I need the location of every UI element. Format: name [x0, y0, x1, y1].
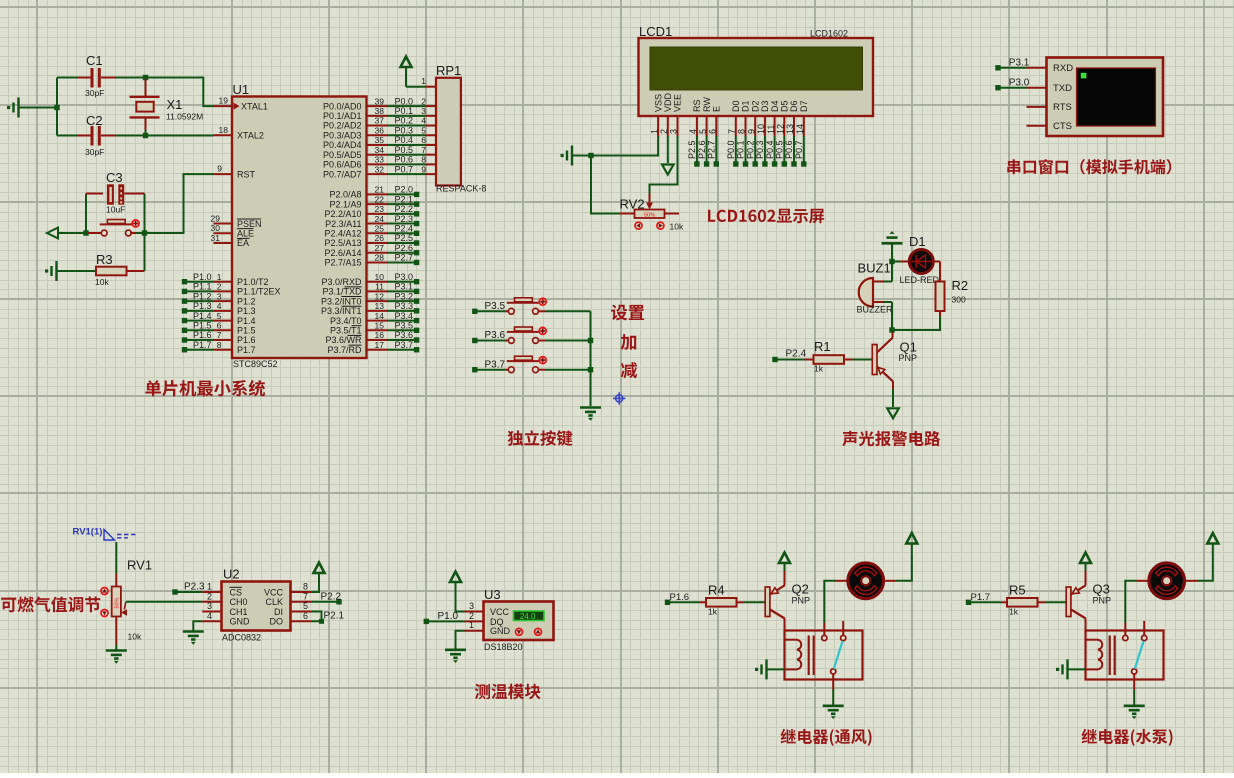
- serial window body: [1047, 58, 1164, 137]
- net label P2.2 (right): [367, 213, 388, 215]
- svg-text:P2.3: P2.3: [394, 214, 413, 224]
- push button P3.5: [506, 310, 509, 312]
- svg-text:P0.4: P0.4: [765, 140, 775, 159]
- U2 pin CH0: [202, 601, 221, 603]
- LCD screen: [650, 47, 863, 90]
- RV2 adjust marker minus: [635, 222, 642, 229]
- svg-text:P1.0: P1.0: [193, 272, 212, 282]
- wire ground to coil: [767, 668, 785, 670]
- svg-text:27: 27: [375, 243, 385, 253]
- svg-text:VSS: VSS: [653, 94, 663, 112]
- serial cursor: [1081, 73, 1087, 79]
- svg-text:P0.3/AD3: P0.3/AD3: [323, 130, 362, 140]
- svg-text:P2.4: P2.4: [394, 223, 413, 233]
- power arrow (U3 VCC): [450, 572, 461, 583]
- svg-text:P3.3: P3.3: [394, 301, 413, 311]
- svg-text:P2.4/A12: P2.4/A12: [324, 228, 361, 238]
- svg-text:P2.6: P2.6: [394, 243, 413, 253]
- svg-text:P3.1/TXD: P3.1/TXD: [322, 287, 362, 297]
- svg-text:3: 3: [669, 129, 679, 134]
- svg-text:P3.2/INT0: P3.2/INT0: [321, 296, 362, 306]
- svg-text:P2.7: P2.7: [707, 140, 717, 159]
- net label P1.0 (U3 DQ): [429, 620, 465, 622]
- net label P3.0 (serial TXD): [995, 85, 1000, 90]
- node X1 top: [143, 75, 148, 80]
- U2 pin DO: [291, 620, 312, 622]
- svg-text:CLK: CLK: [265, 597, 283, 607]
- svg-text:4: 4: [688, 129, 698, 134]
- svg-text:P3.1: P3.1: [1009, 58, 1030, 69]
- svg-text:P1.1/T2EX: P1.1/T2EX: [237, 287, 281, 297]
- svg-text:4: 4: [217, 301, 222, 311]
- ground arrow (Q1 emitter): [887, 408, 899, 418]
- svg-text:6: 6: [421, 135, 426, 145]
- net label P3.1 (right): [367, 290, 388, 292]
- U1 STC89C52 body: [232, 97, 367, 359]
- net label P1.2 (left): [182, 298, 187, 303]
- svg-text:10: 10: [375, 272, 385, 282]
- svg-text:BUZ1: BUZ1: [858, 261, 891, 276]
- wire LED to R2: [933, 261, 940, 263]
- net label P2.5 (right): [367, 242, 388, 244]
- svg-text:PSEN: PSEN: [237, 219, 262, 229]
- wire U2 GND to ground: [193, 621, 202, 630]
- svg-text:P2.5: P2.5: [687, 140, 697, 159]
- label 继电器(通风): [781, 729, 872, 746]
- relay contact common: [831, 669, 836, 674]
- svg-text:R2: R2: [952, 278, 969, 293]
- svg-text:30pF: 30pF: [85, 147, 104, 157]
- svg-text:24: 24: [375, 214, 385, 224]
- svg-text:VDD: VDD: [663, 92, 673, 112]
- wire U3 GND to ground: [456, 631, 465, 649]
- label 继电器(水泵): [1082, 729, 1173, 746]
- svg-text:8: 8: [421, 155, 426, 165]
- svg-text:1: 1: [207, 582, 212, 592]
- push button P3.7: [506, 369, 509, 371]
- svg-text:P1.1: P1.1: [193, 282, 212, 292]
- ground (LCD VSS): [561, 146, 573, 166]
- transistor Q3: [1066, 587, 1071, 617]
- label 单片机最小系统: [145, 380, 265, 397]
- power arrow (RP1): [401, 57, 412, 68]
- svg-text:P2.7/A15: P2.7/A15: [324, 258, 361, 268]
- svg-text:VEE: VEE: [673, 94, 683, 112]
- net label P1.7 (relay): [966, 600, 971, 605]
- svg-text:CTS: CTS: [1053, 121, 1072, 132]
- relay contact NO: [1123, 635, 1128, 640]
- svg-text:P3.6: P3.6: [394, 330, 413, 340]
- net label P3.4 (right): [367, 320, 388, 322]
- wire U2 VCC to power: [311, 574, 319, 592]
- node reset right: [142, 230, 147, 235]
- svg-text:1k: 1k: [1009, 607, 1019, 617]
- svg-text:R3: R3: [96, 252, 113, 267]
- U1 T1 overline: [352, 325, 362, 327]
- wire ground to VSS node: [572, 155, 591, 157]
- capacitor C1: [77, 77, 91, 79]
- svg-text:R5: R5: [1009, 582, 1026, 597]
- wire motor to power: [1185, 580, 1197, 582]
- transistor Q2: [765, 587, 770, 617]
- net label P2.4: [772, 357, 777, 362]
- svg-text:RST: RST: [237, 169, 256, 179]
- label 可燃气值调节: [1, 597, 100, 613]
- power arrow (motor rail): [1207, 533, 1218, 544]
- svg-text:29: 29: [211, 213, 221, 223]
- pin 18 stub: [214, 134, 233, 136]
- wire Q3 emitter to power: [1085, 571, 1087, 585]
- svg-text:10k: 10k: [128, 632, 142, 642]
- svg-text:RP1: RP1: [436, 63, 461, 78]
- node X1 bottom: [143, 133, 148, 138]
- RV1 wiper arrow: [124, 602, 126, 610]
- svg-text:P2.1: P2.1: [394, 194, 413, 204]
- svg-text:7: 7: [421, 145, 426, 155]
- svg-text:P0.2: P0.2: [394, 116, 413, 126]
- ground (relay coil): [1056, 659, 1068, 679]
- resistor R1: [805, 359, 814, 361]
- net label P2.6 (LCD pin 5): [706, 136, 708, 162]
- U1 INT0 overline: [342, 296, 362, 298]
- wire VSS node to RV2: [591, 156, 619, 214]
- label 测温模块: [475, 684, 541, 700]
- net label P2.0 (right): [367, 193, 388, 195]
- svg-text:2: 2: [217, 282, 222, 292]
- svg-text:RV1(1): RV1(1): [73, 527, 103, 538]
- svg-text:ADC0832: ADC0832: [222, 633, 261, 643]
- svg-text:D3: D3: [760, 100, 770, 112]
- svg-text:P1.2: P1.2: [237, 296, 256, 306]
- svg-text:DO: DO: [270, 617, 284, 627]
- relay contact common: [1132, 669, 1137, 674]
- svg-text:XTAL1: XTAL1: [241, 101, 268, 111]
- svg-text:33: 33: [375, 155, 385, 165]
- potentiometer RV2: [619, 213, 635, 215]
- svg-text:1k: 1k: [814, 364, 824, 374]
- RV2 adjust marker plus: [657, 222, 664, 229]
- svg-text:7: 7: [303, 592, 308, 602]
- wire C1 branch: [57, 77, 77, 79]
- crystal X1: [145, 79, 147, 97]
- pin XTAL1 marker: [234, 103, 240, 110]
- svg-text:P1.6: P1.6: [237, 335, 256, 345]
- U3 pin VCC: [465, 611, 484, 613]
- svg-text:39: 39: [375, 96, 385, 106]
- node VSS: [588, 153, 593, 158]
- net label P0.3 (LCD pin 10): [764, 136, 766, 162]
- svg-text:5: 5: [217, 311, 222, 321]
- svg-text:P0.6: P0.6: [394, 155, 413, 165]
- svg-text:P0.6: P0.6: [784, 140, 794, 159]
- svg-text:12: 12: [776, 124, 786, 134]
- svg-text:P0.2/AD2: P0.2/AD2: [323, 121, 362, 131]
- svg-text:P1.4: P1.4: [237, 316, 256, 326]
- power arrow (Q3): [1080, 553, 1091, 564]
- net label P2.1 (right): [367, 203, 388, 205]
- relay body: [785, 631, 863, 680]
- svg-text:50%: 50%: [644, 212, 655, 218]
- label 减: [621, 362, 637, 378]
- svg-text:P3.5: P3.5: [394, 321, 413, 331]
- net label P2.5 (LCD pin 4): [696, 136, 698, 162]
- svg-text:PNP: PNP: [1093, 596, 1112, 606]
- svg-text:P3.3/INT1: P3.3/INT1: [321, 306, 362, 316]
- svg-text:P0.7: P0.7: [394, 164, 413, 174]
- RV1 adjust marker down: [101, 610, 108, 617]
- push button P3.6: [506, 340, 509, 342]
- svg-text:P3.5/T1: P3.5/T1: [330, 326, 362, 336]
- svg-text:6: 6: [708, 129, 718, 134]
- svg-text:3: 3: [217, 291, 222, 301]
- net label P0.0 (LCD pin 7): [735, 136, 737, 162]
- svg-text:P3.7/RD: P3.7/RD: [327, 345, 362, 355]
- node button bus 3: [588, 367, 593, 372]
- svg-text:10uF: 10uF: [106, 205, 125, 215]
- svg-text:2: 2: [421, 96, 426, 106]
- ground (RV1): [106, 651, 127, 664]
- svg-text:X1: X1: [167, 97, 183, 112]
- svg-text:P3.0: P3.0: [1009, 78, 1030, 89]
- svg-text:P0.4/AD4: P0.4/AD4: [323, 140, 362, 150]
- wire buzzer to node: [891, 302, 893, 330]
- svg-text:RV2: RV2: [620, 197, 645, 212]
- svg-text:E: E: [712, 106, 722, 112]
- wire button P3.6 to bus: [546, 340, 591, 342]
- ground (left of crystal): [7, 98, 19, 118]
- svg-text:P2.2/A10: P2.2/A10: [324, 209, 361, 219]
- net label P0.2 (LCD pin 9): [754, 136, 756, 162]
- svg-text:10k: 10k: [95, 277, 109, 287]
- wire vertical C1-C2: [56, 78, 58, 136]
- wire P0.0 U1 to RP1: [367, 105, 388, 107]
- resistor R5: [1001, 601, 1007, 603]
- U3 DS18B20 body: [484, 602, 554, 641]
- net label P3.1 (serial RXD): [995, 65, 1000, 70]
- svg-text:EA: EA: [237, 238, 249, 248]
- svg-text:23: 23: [375, 204, 385, 214]
- svg-text:P0.0: P0.0: [726, 140, 736, 159]
- svg-text:P2.6/A14: P2.6/A14: [324, 248, 361, 258]
- svg-text:30: 30: [211, 223, 221, 233]
- svg-text:P3.0/RXD: P3.0/RXD: [321, 277, 362, 287]
- svg-text:P1.6: P1.6: [670, 592, 690, 603]
- svg-text:P0.5: P0.5: [775, 140, 785, 159]
- wire motor to power: [884, 580, 896, 582]
- svg-text:RTS: RTS: [1053, 102, 1072, 113]
- svg-text:P0.1: P0.1: [736, 140, 746, 159]
- svg-text:P2.2: P2.2: [321, 591, 342, 602]
- wire relay NO to motor: [1124, 623, 1126, 635]
- svg-text:D1: D1: [741, 100, 751, 112]
- net label P1.6 (left): [182, 337, 187, 342]
- net label P1.1 (left): [182, 289, 187, 294]
- svg-text:R1: R1: [814, 339, 831, 354]
- wire C1 to X1 node: [116, 77, 146, 79]
- svg-text:P1.7: P1.7: [971, 592, 991, 603]
- wire P0.4 U1 to RP1: [367, 144, 388, 146]
- wire button P3.7 to bus: [546, 369, 591, 371]
- svg-text:8: 8: [737, 129, 747, 134]
- svg-text:P3.7: P3.7: [394, 340, 413, 350]
- label 独立按键: [508, 430, 573, 446]
- wire R5 to Q3 base: [1045, 601, 1066, 603]
- svg-text:9: 9: [421, 164, 426, 174]
- ground (buttons): [580, 408, 601, 421]
- svg-text:LED-RED: LED-RED: [900, 275, 940, 285]
- wire Q1 emitter to ground arrow: [892, 382, 894, 390]
- svg-text:CS: CS: [230, 587, 243, 597]
- svg-text:1: 1: [421, 76, 426, 86]
- U2 pin CLK: [291, 601, 312, 603]
- svg-text:C3: C3: [106, 170, 123, 185]
- wire relay common to ground: [1133, 674, 1135, 690]
- wire Q3 collector to relay: [1085, 619, 1087, 631]
- wire RV1 bottom to ground: [115, 617, 117, 645]
- node crystal-left: [54, 105, 59, 110]
- svg-text:P0.0: P0.0: [394, 96, 413, 106]
- svg-text:P1.0/T2: P1.0/T2: [237, 277, 269, 287]
- svg-text:P2.1: P2.1: [324, 610, 345, 621]
- svg-text:P1.7: P1.7: [193, 340, 212, 350]
- wire Q2 emitter to power: [784, 571, 786, 585]
- net label P3.2 (right): [367, 300, 388, 302]
- label 声光报警电路: [842, 431, 940, 447]
- net label P2.3 (U2 CS): [172, 589, 177, 594]
- push button (reset): [87, 232, 101, 234]
- svg-text:P2.3: P2.3: [184, 582, 205, 593]
- label 加: [621, 334, 637, 350]
- power down arrow (LCD VDD): [667, 136, 669, 163]
- label 设置: [611, 305, 644, 321]
- relay NC stub: [1143, 621, 1145, 635]
- svg-text:P3.7: P3.7: [485, 359, 506, 370]
- U1 INT1 overline: [342, 305, 362, 307]
- svg-text:P2.4: P2.4: [786, 349, 807, 360]
- wire R2 to node: [939, 311, 941, 316]
- net label P3.6 (button 2): [472, 338, 477, 343]
- svg-text:DS18B20: DS18B20: [484, 642, 523, 652]
- net label P2.7 (LCD pin 6): [715, 136, 717, 162]
- potentiometer RV1: [112, 587, 121, 617]
- net label P2.4 (right): [367, 232, 388, 234]
- svg-text:21: 21: [375, 185, 385, 195]
- transistor Q1: [872, 345, 877, 375]
- svg-text:31: 31: [211, 233, 221, 243]
- svg-text:24.0: 24.0: [520, 612, 536, 621]
- wire ground to coil: [1068, 668, 1086, 670]
- net label P3.5 (button 1): [472, 309, 477, 314]
- svg-text:P0.3: P0.3: [394, 125, 413, 135]
- svg-text:Q3: Q3: [1093, 582, 1110, 597]
- U1 WR overline: [348, 334, 362, 336]
- svg-text:36: 36: [375, 125, 385, 135]
- svg-text:P2.0/A8: P2.0/A8: [329, 190, 361, 200]
- input terminal arrow (reset row): [47, 228, 58, 239]
- net label P0.7 (LCD pin 14): [803, 136, 805, 162]
- resistor R3: [45, 261, 57, 281]
- wire Q2 collector to relay: [784, 619, 786, 631]
- svg-text:P3.0: P3.0: [394, 272, 413, 282]
- svg-text:P3.5: P3.5: [485, 301, 506, 312]
- svg-text:3: 3: [207, 601, 212, 611]
- svg-text:P2.2: P2.2: [394, 204, 413, 214]
- U2 pin DI: [291, 611, 312, 613]
- svg-text:1: 1: [217, 272, 222, 282]
- svg-text:RS: RS: [692, 99, 702, 112]
- net label P2.6 (right): [367, 252, 388, 254]
- svg-text:9: 9: [217, 164, 222, 174]
- wire P0.7 U1 to RP1: [367, 173, 388, 175]
- svg-text:GND: GND: [230, 617, 251, 627]
- pin 19 stub: [214, 105, 233, 107]
- net label P0.6 (LCD pin 13): [793, 136, 795, 162]
- wire top to XTAL1: [146, 78, 215, 107]
- svg-text:P0.4: P0.4: [394, 135, 413, 145]
- net label P3.5 (right): [367, 329, 388, 331]
- svg-text:6: 6: [303, 611, 308, 621]
- svg-text:13: 13: [785, 124, 795, 134]
- svg-text:35: 35: [375, 135, 385, 145]
- svg-text:P2.3/A11: P2.3/A11: [325, 219, 361, 229]
- svg-text:RW: RW: [702, 97, 712, 112]
- svg-text:TXD: TXD: [1053, 83, 1072, 94]
- ground (U3): [445, 650, 466, 663]
- svg-text:P3.4/T0: P3.4/T0: [330, 316, 362, 326]
- net label P1.7 (left): [182, 347, 187, 352]
- relay blade (cyan): [834, 641, 843, 669]
- pin 9 stub: [214, 173, 233, 175]
- svg-text:P1.5: P1.5: [237, 326, 256, 336]
- serial pin RXD: [1027, 67, 1047, 69]
- net label P3.3 (right): [367, 310, 388, 312]
- svg-text:7: 7: [727, 129, 737, 134]
- net label P3.0 (right): [367, 281, 388, 283]
- svg-text:4: 4: [207, 611, 212, 621]
- serial pin TXD: [1027, 87, 1047, 89]
- svg-text:Q2: Q2: [792, 582, 809, 597]
- wire R3 to reset node: [144, 233, 146, 271]
- svg-text:P0.6/AD6: P0.6/AD6: [323, 160, 362, 170]
- wire ground to node: [19, 107, 58, 109]
- svg-text:8: 8: [217, 340, 222, 350]
- relay coil: [1087, 640, 1103, 670]
- wire RST: [145, 174, 214, 233]
- capacitor C3: [85, 194, 87, 234]
- svg-text:50%: 50%: [114, 597, 120, 608]
- svg-text:26: 26: [375, 233, 385, 243]
- wire P0.6 U1 to RP1: [367, 163, 388, 165]
- U1 pins 29-31 stubs (PSEN ALE EA): [214, 223, 233, 225]
- wire relay NO to motor: [823, 623, 825, 635]
- svg-text:P0.5/AD5: P0.5/AD5: [323, 150, 362, 160]
- serial pin RTS: [1027, 106, 1047, 108]
- ground (relay coil): [755, 659, 767, 679]
- svg-text:12: 12: [375, 291, 385, 301]
- relay contact NC: [1142, 635, 1147, 640]
- svg-text:P1.6: P1.6: [193, 330, 212, 340]
- net label P2.2 (U2 CLK): [311, 601, 337, 603]
- svg-text:RXD: RXD: [1053, 63, 1073, 74]
- U2 pin CH1: [202, 611, 221, 613]
- U2 pin GND: [202, 620, 221, 622]
- svg-text:P3.6/WR: P3.6/WR: [325, 335, 362, 345]
- svg-text:P3.2: P3.2: [394, 291, 413, 301]
- U2 CS overline: [230, 586, 243, 588]
- svg-text:19: 19: [219, 96, 229, 106]
- relay contact NC: [841, 635, 846, 640]
- svg-text:11.0592M: 11.0592M: [166, 112, 203, 122]
